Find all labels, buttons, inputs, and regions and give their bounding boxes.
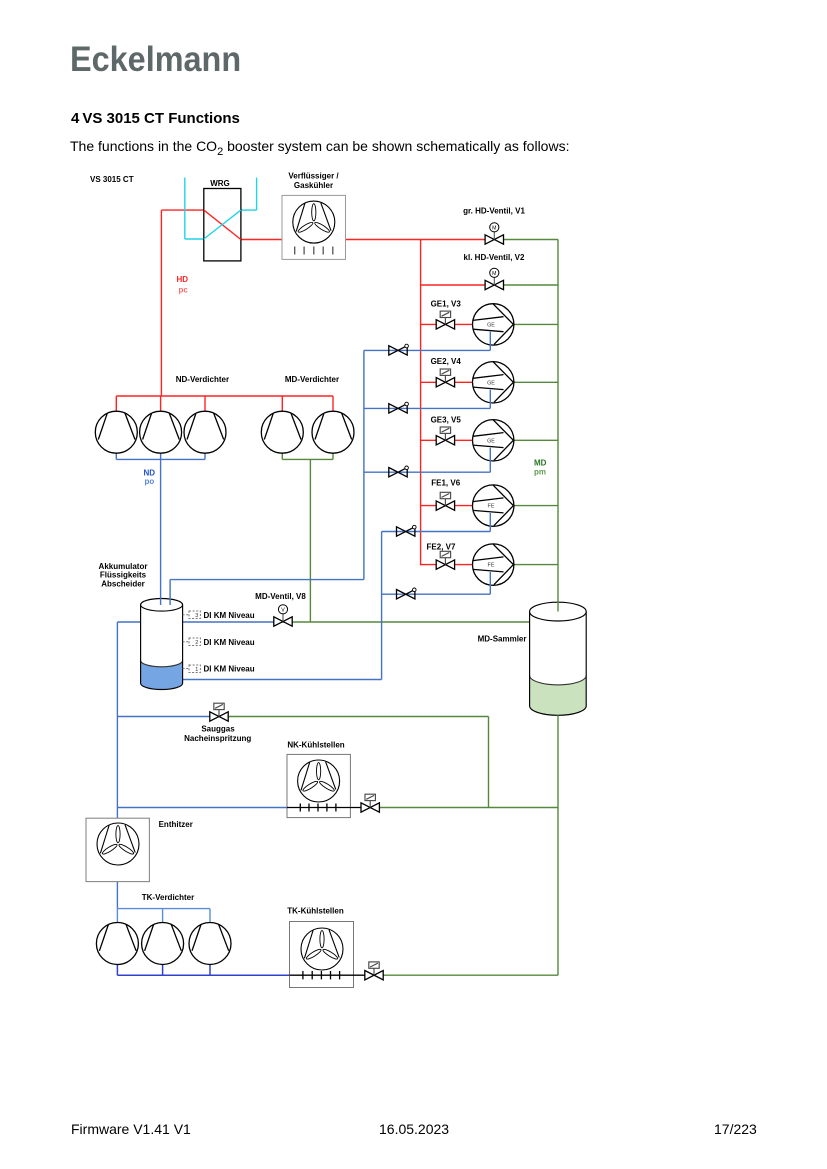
svg-text:MD-Verdichter: MD-Verdichter — [285, 375, 339, 384]
svg-text:GE: GE — [487, 380, 495, 386]
svg-text:FE1, V6: FE1, V6 — [431, 479, 460, 488]
svg-text:gr. HD-Ventil, V1: gr. HD-Ventil, V1 — [463, 207, 525, 216]
svg-text:1: 1 — [195, 667, 198, 673]
svg-text:GE1, V3: GE1, V3 — [431, 299, 462, 308]
svg-text:3: 3 — [195, 613, 198, 619]
svg-text:Sauggas: Sauggas — [201, 725, 235, 734]
svg-text:DI KM Niveau: DI KM Niveau — [204, 665, 255, 674]
svg-text:Enthitzer: Enthitzer — [159, 820, 193, 829]
svg-text:DI KM Niveau: DI KM Niveau — [204, 638, 255, 647]
svg-text:MD: MD — [534, 459, 547, 468]
svg-text:pm: pm — [534, 468, 546, 477]
svg-text:po: po — [145, 477, 155, 486]
svg-text:FE2, V7: FE2, V7 — [427, 543, 456, 552]
svg-text:NK-Kühlstellen: NK-Kühlstellen — [287, 741, 344, 750]
svg-text:TK-Kühlstellen: TK-Kühlstellen — [287, 907, 344, 916]
svg-text:WRG: WRG — [210, 179, 230, 188]
svg-text:Flüssigkeits: Flüssigkeits — [100, 571, 147, 580]
svg-text:GE3, V5: GE3, V5 — [431, 416, 462, 425]
svg-text:DI KM Niveau: DI KM Niveau — [204, 611, 255, 620]
svg-text:MD-Sammler: MD-Sammler — [478, 635, 527, 644]
svg-text:GE: GE — [487, 322, 495, 328]
svg-text:Verflüssiger /: Verflüssiger / — [288, 172, 339, 181]
svg-text:HD: HD — [177, 275, 189, 284]
svg-text:ND-Verdichter: ND-Verdichter — [176, 375, 229, 384]
svg-text:kl. HD-Ventil, V2: kl. HD-Ventil, V2 — [464, 253, 525, 262]
svg-text:FE: FE — [488, 504, 495, 510]
svg-text:VS 3015 CT: VS 3015 CT — [90, 175, 134, 184]
svg-text:GE: GE — [487, 438, 495, 444]
svg-text:pc: pc — [179, 286, 189, 295]
svg-text:Abscheider: Abscheider — [101, 579, 145, 588]
svg-text:Gaskühler: Gaskühler — [294, 181, 333, 190]
svg-text:2: 2 — [195, 640, 198, 646]
svg-text:MD-Ventil, V8: MD-Ventil, V8 — [255, 592, 306, 601]
svg-text:GE2, V4: GE2, V4 — [431, 357, 462, 366]
svg-text:Nacheinspritzung: Nacheinspritzung — [184, 734, 251, 743]
svg-text:FE: FE — [488, 563, 495, 569]
svg-text:TK-Verdichter: TK-Verdichter — [142, 893, 194, 902]
